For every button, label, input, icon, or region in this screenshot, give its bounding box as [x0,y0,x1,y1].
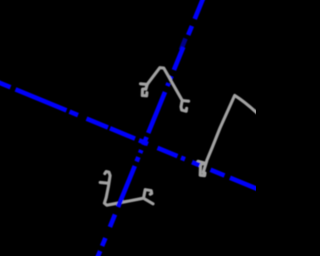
steep boundary dashes [195,0,204,19]
path C (bottom-center gray way with hooked ends) [100,172,153,206]
path C left tick [100,181,108,185]
path B (right-side gray way, apex and hooked leg) [198,95,257,175]
shallow boundary dashes [0,81,11,87]
path A (top-center gray peak with hooked ends, drawn over boundary) [141,68,189,112]
path C right hook [144,190,152,198]
path B bracket hook [200,164,205,176]
path A left tick [141,82,148,86]
crossing dash blob [139,140,148,144]
path A left bracket hook [142,89,147,96]
path B tick [198,161,205,163]
path A right stub [182,99,188,103]
